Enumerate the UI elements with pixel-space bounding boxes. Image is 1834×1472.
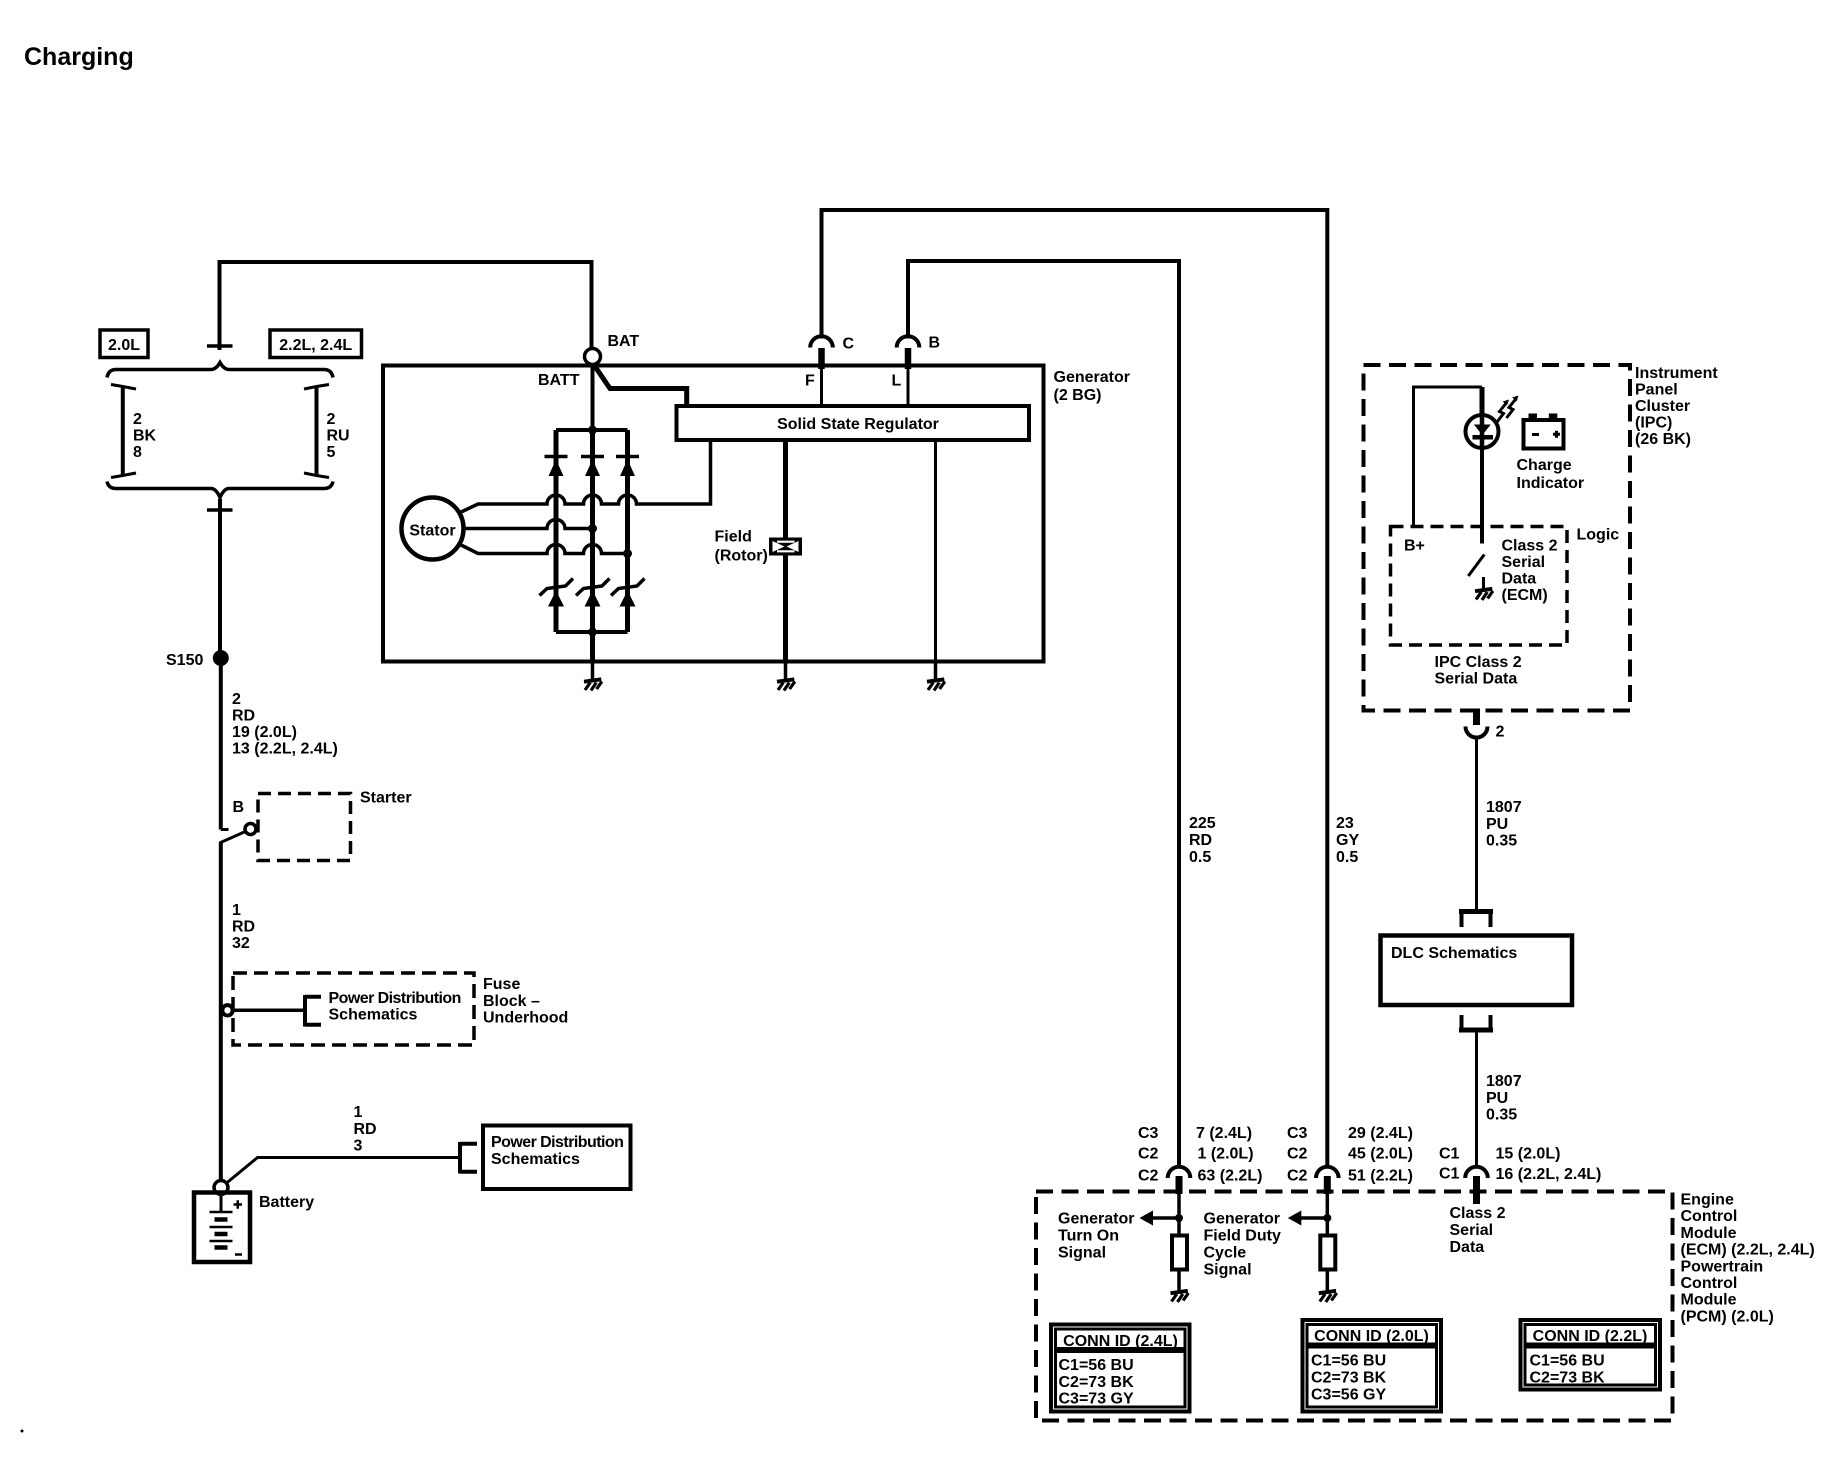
svg-text:B: B [233, 799, 245, 816]
svg-text:RD: RD [1189, 832, 1212, 849]
svg-text:CONN ID (2.4L): CONN ID (2.4L) [1063, 1333, 1178, 1350]
svg-text:23: 23 [1336, 815, 1354, 832]
svg-text:B: B [929, 335, 941, 352]
svg-text:Power Distribution: Power Distribution [329, 990, 461, 1007]
svg-text:BK: BK [133, 428, 157, 445]
svg-text:(ECM): (ECM) [1502, 587, 1548, 604]
svg-text:0.5: 0.5 [1189, 849, 1211, 866]
svg-text:1807: 1807 [1486, 799, 1522, 816]
svg-text:PU: PU [1486, 1090, 1508, 1107]
svg-text:1807: 1807 [1486, 1073, 1522, 1090]
svg-text:2: 2 [232, 691, 241, 708]
svg-text:Turn On: Turn On [1058, 1228, 1119, 1245]
svg-text:Module: Module [1681, 1225, 1737, 1242]
svg-text:5: 5 [327, 444, 336, 461]
svg-text:C3=73 GY: C3=73 GY [1059, 1391, 1134, 1408]
svg-text:Charging: Charging [24, 43, 134, 71]
svg-text:Data: Data [1502, 571, 1537, 588]
svg-text:Logic: Logic [1577, 527, 1620, 544]
svg-text:Schematics: Schematics [491, 1151, 580, 1168]
svg-text:Field: Field [715, 529, 752, 546]
svg-text:Control: Control [1681, 1275, 1738, 1292]
svg-text:51 (2.2L): 51 (2.2L) [1348, 1168, 1413, 1185]
svg-text:B+: B+ [1404, 538, 1425, 555]
svg-text:Field Duty: Field Duty [1204, 1228, 1281, 1245]
svg-text:Starter: Starter [360, 790, 412, 807]
svg-text:2: 2 [1496, 724, 1505, 741]
svg-text:Control: Control [1681, 1208, 1738, 1225]
svg-text:Generator: Generator [1058, 1211, 1134, 1228]
svg-text:(2 BG): (2 BG) [1054, 387, 1102, 404]
svg-text:1: 1 [354, 1104, 363, 1121]
svg-text:RD: RD [354, 1121, 377, 1138]
svg-text:225: 225 [1189, 815, 1216, 832]
svg-text:Powertrain: Powertrain [1681, 1258, 1764, 1275]
svg-text:C2=73 BK: C2=73 BK [1311, 1370, 1387, 1387]
svg-text:Underhood: Underhood [483, 1010, 568, 1027]
svg-text:Module: Module [1681, 1292, 1737, 1309]
svg-text:(ECM) (2.2L, 2.4L): (ECM) (2.2L, 2.4L) [1681, 1242, 1815, 1259]
svg-text:1: 1 [232, 902, 241, 919]
svg-text:L: L [892, 373, 902, 390]
svg-text:Block –: Block – [483, 993, 540, 1010]
svg-text:2: 2 [327, 411, 336, 428]
svg-text:2: 2 [133, 411, 142, 428]
svg-text:DLC Schematics: DLC Schematics [1391, 945, 1517, 962]
svg-text:CONN ID (2.2L): CONN ID (2.2L) [1533, 1328, 1648, 1345]
svg-text:C1=56 BU: C1=56 BU [1059, 1357, 1134, 1374]
svg-text:(26 BK): (26 BK) [1635, 431, 1691, 448]
svg-text:(IPC): (IPC) [1635, 415, 1672, 432]
svg-text:15 (2.0L): 15 (2.0L) [1496, 1146, 1561, 1163]
svg-text:C1=56 BU: C1=56 BU [1530, 1353, 1605, 1370]
svg-text:Schematics: Schematics [329, 1007, 418, 1024]
svg-text:Indicator: Indicator [1517, 475, 1585, 492]
svg-text:GY: GY [1336, 832, 1359, 849]
svg-text:PU: PU [1486, 816, 1508, 833]
svg-text:C2=73 BK: C2=73 BK [1530, 1370, 1606, 1387]
svg-text:C3=56 GY: C3=56 GY [1311, 1387, 1386, 1404]
svg-text:Serial Data: Serial Data [1435, 671, 1518, 688]
svg-text:BATT: BATT [538, 372, 580, 389]
svg-text:Generator: Generator [1054, 369, 1130, 386]
svg-text:(Rotor): (Rotor) [715, 548, 768, 565]
svg-text:C2=73 BK: C2=73 BK [1059, 1374, 1135, 1391]
svg-text:RD: RD [232, 919, 255, 936]
svg-text:C: C [843, 336, 855, 353]
svg-text:RU: RU [327, 428, 350, 445]
svg-text:Data: Data [1450, 1239, 1485, 1256]
svg-text:0.35: 0.35 [1486, 833, 1517, 850]
svg-text:13 (2.2L, 2.4L): 13 (2.2L, 2.4L) [232, 741, 338, 758]
svg-text:Panel: Panel [1635, 382, 1678, 399]
svg-text:(PCM) (2.0L): (PCM) (2.0L) [1681, 1308, 1774, 1325]
svg-text:Battery: Battery [259, 1194, 314, 1211]
svg-text:C2: C2 [1138, 1168, 1159, 1185]
svg-text:C3: C3 [1138, 1125, 1159, 1142]
svg-text:C2: C2 [1287, 1168, 1308, 1185]
svg-text:C2: C2 [1138, 1146, 1159, 1163]
svg-text:Serial: Serial [1502, 554, 1546, 571]
svg-text:Class 2: Class 2 [1450, 1205, 1506, 1222]
svg-text:Cluster: Cluster [1635, 398, 1690, 415]
svg-text:45 (2.0L): 45 (2.0L) [1348, 1146, 1413, 1163]
svg-text:0.35: 0.35 [1486, 1107, 1517, 1124]
svg-text:Cycle: Cycle [1204, 1245, 1247, 1262]
svg-text:Class 2: Class 2 [1502, 538, 1558, 555]
svg-text:2.2L, 2.4L: 2.2L, 2.4L [279, 337, 352, 354]
svg-text:16 (2.2L, 2.4L): 16 (2.2L, 2.4L) [1496, 1166, 1602, 1183]
svg-text:Fuse: Fuse [483, 976, 520, 993]
svg-text:C3: C3 [1287, 1125, 1308, 1142]
svg-text:Serial: Serial [1450, 1222, 1494, 1239]
svg-text:19 (2.0L): 19 (2.0L) [232, 724, 297, 741]
svg-text:RD: RD [232, 708, 255, 725]
svg-text:Signal: Signal [1204, 1262, 1252, 1279]
svg-text:Instrument: Instrument [1635, 365, 1718, 382]
svg-text:63 (2.2L): 63 (2.2L) [1198, 1168, 1263, 1185]
svg-text:CONN ID (2.0L): CONN ID (2.0L) [1314, 1328, 1429, 1345]
svg-text:IPC Class 2: IPC Class 2 [1435, 654, 1522, 671]
svg-text:BAT: BAT [608, 333, 640, 350]
svg-text:8: 8 [133, 444, 142, 461]
svg-text:Solid State Regulator: Solid State Regulator [777, 416, 939, 433]
svg-text:Power Distribution: Power Distribution [491, 1134, 623, 1151]
svg-text:29 (2.4L): 29 (2.4L) [1348, 1125, 1413, 1142]
svg-text:Signal: Signal [1058, 1245, 1106, 1262]
svg-text:3: 3 [354, 1138, 363, 1155]
svg-text:F: F [805, 373, 815, 390]
svg-text:1 (2.0L): 1 (2.0L) [1198, 1146, 1254, 1163]
svg-text:32: 32 [232, 935, 250, 952]
svg-text:S150: S150 [166, 652, 203, 669]
svg-text:Charge: Charge [1517, 457, 1572, 474]
svg-text:C2: C2 [1287, 1146, 1308, 1163]
svg-text:C1=56 BU: C1=56 BU [1311, 1353, 1386, 1370]
svg-text:2.0L: 2.0L [108, 337, 140, 354]
svg-text:Engine: Engine [1681, 1192, 1734, 1209]
svg-text:7 (2.4L): 7 (2.4L) [1196, 1125, 1252, 1142]
svg-text:C1: C1 [1439, 1166, 1460, 1183]
svg-text:C1: C1 [1439, 1146, 1460, 1163]
svg-text:0.5: 0.5 [1336, 849, 1358, 866]
svg-text:Generator: Generator [1204, 1211, 1280, 1228]
svg-text:Stator: Stator [409, 523, 455, 540]
